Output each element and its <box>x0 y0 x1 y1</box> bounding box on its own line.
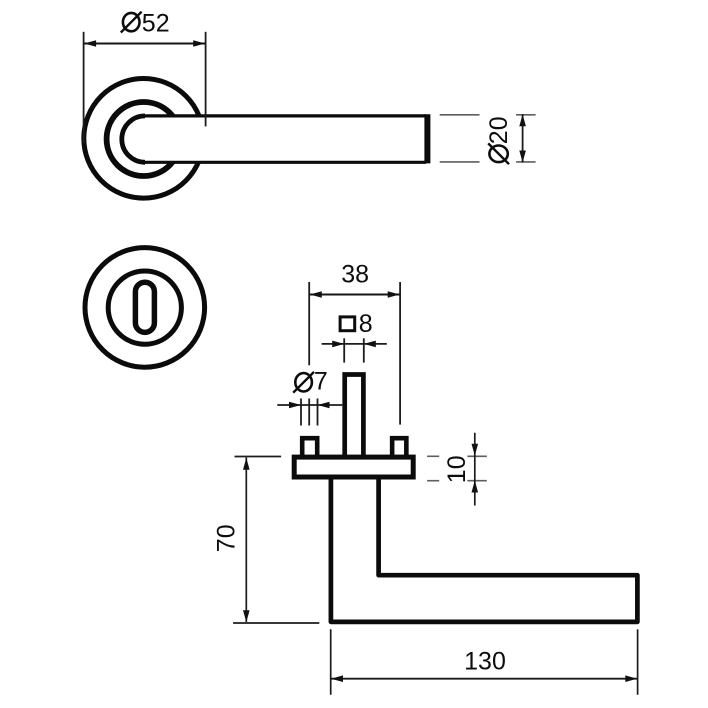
svg-text:8: 8 <box>359 310 373 338</box>
svg-text:38: 38 <box>341 261 369 289</box>
svg-text:70: 70 <box>212 524 240 552</box>
svg-text:130: 130 <box>464 647 506 675</box>
svg-text:20: 20 <box>485 116 513 144</box>
svg-text:10: 10 <box>443 455 471 483</box>
svg-text:52: 52 <box>142 9 170 37</box>
svg-text:7: 7 <box>314 367 328 395</box>
